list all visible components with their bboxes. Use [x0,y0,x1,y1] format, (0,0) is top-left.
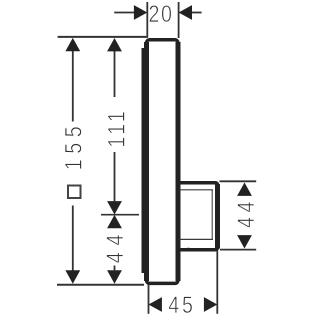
svg-text:45: 45 [168,291,195,318]
svg-text:44: 44 [101,228,128,264]
svg-text:20: 20 [148,0,173,27]
svg-text:111: 111 [103,108,130,148]
svg-text:155: 155 [60,121,87,171]
svg-text:44: 44 [232,197,259,228]
